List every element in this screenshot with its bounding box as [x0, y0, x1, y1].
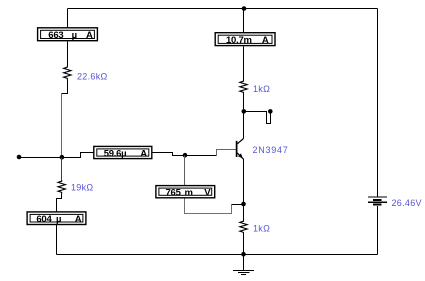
- label R2 value: [253, 84, 270, 94]
- svg-text:663: 663: [48, 30, 63, 41]
- wire bottom rail: [57, 254, 378, 256]
- wire input: [19, 157, 62, 159]
- ground: [233, 255, 254, 275]
- wire left spine top: [67, 9, 69, 28]
- label Q1 name: [253, 145, 289, 155]
- node input terminal: [17, 155, 22, 160]
- ammeter M5 604µ: [27, 212, 86, 225]
- node mid junction: [60, 155, 65, 160]
- svg-text:604: 604: [36, 214, 52, 225]
- wire R4 to ground rail: [243, 234, 245, 255]
- wire R1 bottom jog: [62, 80, 68, 94]
- label R4 value: [253, 224, 270, 234]
- ammeter M1 663µ: [38, 28, 98, 41]
- resistor R4 1kΩ: [240, 220, 247, 234]
- wire gray voltmeter minus: [185, 199, 232, 214]
- node ground junction: [241, 252, 246, 257]
- wire M1 to R1: [67, 42, 69, 67]
- label R3 value: [71, 183, 93, 193]
- svg-text:1kΩ: 1kΩ: [253, 224, 270, 234]
- battery V1: [368, 197, 387, 205]
- svg-text:m: m: [185, 187, 193, 198]
- svg-text:2N3947: 2N3947: [253, 145, 289, 155]
- svg-text:A: A: [140, 148, 147, 159]
- voltmeter M4 765m: [156, 186, 215, 199]
- wire M5 to bottom rail: [56, 225, 58, 255]
- wire gray to mid junction: [61, 94, 63, 158]
- svg-text:59.6µ: 59.6µ: [104, 148, 127, 159]
- wire M3 to base junction: [153, 153, 217, 156]
- svg-text:V: V: [204, 187, 211, 198]
- wire battery bottom: [377, 206, 379, 255]
- wire battery top: [377, 9, 379, 197]
- ammeter M2 10.7m: [215, 33, 275, 46]
- svg-text:1kΩ: 1kΩ: [253, 84, 270, 94]
- svg-text:22.6kΩ: 22.6kΩ: [77, 72, 108, 82]
- node top rail junction: [242, 6, 247, 11]
- transistor Q1 2N3947: [237, 139, 244, 160]
- svg-text:µ: µ: [72, 30, 77, 41]
- wire R3 to M5: [57, 194, 62, 212]
- node emitter junction: [241, 202, 246, 207]
- svg-text:µ: µ: [56, 214, 61, 225]
- svg-text:19kΩ: 19kΩ: [71, 183, 93, 193]
- label R1 value: [77, 72, 108, 82]
- wire gray junction to voltmeter: [184, 156, 186, 186]
- svg-text:A: A: [75, 214, 82, 225]
- wire junction to M3: [62, 153, 94, 158]
- wire emitter down: [243, 159, 245, 220]
- ammeter M3 59.6µ: [94, 146, 152, 159]
- resistor R1 22.6kΩ: [64, 66, 71, 80]
- node base junction: [183, 153, 188, 158]
- wire R2 to collector: [243, 94, 245, 139]
- label V1 value: [392, 198, 422, 208]
- svg-text:765: 765: [166, 187, 182, 198]
- wire junction to R3: [61, 158, 63, 181]
- svg-text:A: A: [86, 30, 93, 41]
- wire M2 to R2: [243, 47, 245, 81]
- wire gray to base: [217, 150, 237, 156]
- wire stub connector: [244, 112, 271, 124]
- wire voltmeter to emitter node: [232, 204, 244, 206]
- node stub end: [268, 109, 273, 114]
- svg-text:10.7m: 10.7m: [226, 35, 252, 46]
- wire top rail: [68, 8, 378, 10]
- node stub junction: [242, 109, 247, 114]
- resistor R3 19kΩ: [58, 180, 65, 194]
- wire rail to M2: [243, 9, 245, 33]
- svg-text:26.46V: 26.46V: [392, 198, 422, 208]
- resistor R2 1kΩ: [240, 80, 247, 94]
- svg-text:A: A: [262, 35, 269, 46]
